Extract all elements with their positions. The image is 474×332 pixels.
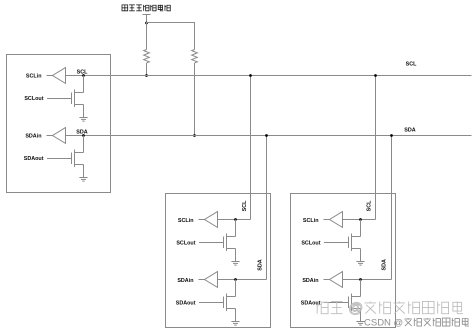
svg-text:SCLout: SCLout [301, 241, 320, 247]
wire: U1 SDAout gate lead [47, 158, 72, 160]
wire: U2 buffer to SDA drop [218, 279, 267, 281]
buffer U3B (SDA input) [330, 272, 343, 288]
svg-text:CSDN @: CSDN @ [364, 318, 403, 329]
resistor R1 (SCL pull-up) [144, 50, 150, 63]
wire: R1 bottom lead [146, 63, 148, 76]
wire: U3 buffer to SDA drop [343, 279, 392, 281]
transistor Q2 (U1 SDA open-drain) [72, 136, 84, 178]
svg-text:SCL: SCL [77, 69, 88, 75]
node: U2 SDA junction [234, 278, 237, 281]
node: R2-SDA junction [193, 134, 196, 137]
label: pull-up supply caption 用于上拉的电源 [122, 5, 170, 11]
svg-text:SCL: SCL [406, 62, 417, 68]
wire: U3 SDAout gate lead [324, 302, 349, 304]
wire: VCC rail [146, 22, 195, 24]
node: R1-SCL junction [145, 74, 148, 77]
wire: U3 buffer to SCL drop [343, 219, 376, 221]
wire: SCL bus [66, 75, 472, 77]
svg-text:SDA: SDA [404, 127, 415, 133]
buffer U1A (SCL input) [53, 68, 66, 84]
wire: SDA drop to U3 [391, 136, 393, 280]
wire: U3 SDAin to buffer [324, 279, 330, 281]
svg-text:SCL: SCL [242, 200, 248, 211]
wire: U2 SDAout gate lead [199, 302, 224, 304]
wire: U2 SCLin to buffer [199, 219, 205, 221]
wire: R2 top lead [194, 23, 196, 50]
node: SDA bus tap for U3 [390, 134, 393, 137]
wire: U2 SCLout gate lead [199, 242, 224, 244]
svg-text:SDA: SDA [76, 129, 87, 135]
wire: SCL drop to U2 [250, 76, 252, 220]
svg-text:SCLout: SCLout [176, 241, 195, 247]
node: SCL bus tap for U3 [374, 74, 377, 77]
wire: R2 bottom lead [194, 63, 196, 136]
svg-text:SDAin: SDAin [302, 278, 318, 284]
wire: U2 buffer to SCL drop [218, 219, 251, 221]
wire: U3 SCLout gate lead [324, 242, 349, 244]
watermark: zhihu 知乎 @不脱发的程序猿 (outline) [316, 300, 463, 316]
buffer U2B (SDA input) [205, 272, 218, 288]
svg-text:SDAin: SDAin [25, 133, 41, 139]
transistor Q3 (U2 SCL open-drain) [224, 220, 236, 262]
svg-text:SCLin: SCLin [178, 218, 194, 224]
svg-text:SDAout: SDAout [176, 301, 196, 307]
wire: R1 top lead [146, 23, 148, 50]
node: SDA bus tap for U2 [265, 134, 268, 137]
svg-text:SDA: SDA [382, 259, 388, 270]
node: U3 SDA junction [359, 278, 362, 281]
node: U3 SCL junction [359, 218, 362, 221]
ground (U3 Q6 source) [356, 322, 364, 326]
node: SCL bus tap for U2 [249, 74, 252, 77]
ground (U1 Q2 source) [79, 178, 87, 182]
wire: U1 SCLout gate lead [47, 98, 72, 100]
wire: SCL drop to U3 [375, 76, 377, 220]
watermark: CSDN @不脱发的程序猿 [364, 318, 469, 329]
wire: U1 SDAin to buffer [47, 135, 53, 137]
svg-text:SDAin: SDAin [177, 278, 193, 284]
ground (U2 Q4 source) [231, 322, 239, 326]
svg-text:SCLin: SCLin [303, 218, 319, 224]
svg-text:SDAout: SDAout [24, 156, 44, 162]
IC U3 outline [291, 194, 396, 328]
node: VCC junction [145, 22, 148, 25]
svg-text:SCL: SCL [367, 200, 373, 211]
wire: U1 SCLin to buffer [47, 75, 53, 77]
buffer U1B (SDA input) [53, 128, 66, 144]
transistor Q6 (U3 SDA open-drain) [349, 280, 361, 322]
svg-text:SDAout: SDAout [301, 301, 321, 307]
wire: SDA bus [66, 135, 472, 137]
transistor Q5 (U3 SCL open-drain) [349, 220, 361, 262]
ground (U1 Q1 source) [79, 118, 87, 122]
node: U1 SDA junction [82, 134, 85, 137]
resistor R2 (SDA pull-up) [192, 50, 198, 63]
buffer U3A (SCL input) [330, 212, 343, 228]
wire: SDA drop to U2 [266, 136, 268, 280]
svg-text:@: @ [349, 300, 363, 316]
wire: U2 SDAin to buffer [199, 279, 205, 281]
svg-text:SCLout: SCLout [24, 96, 43, 102]
power supply VCC symbol [143, 15, 151, 23]
svg-text:SDA: SDA [257, 259, 263, 270]
transistor Q4 (U2 SDA open-drain) [224, 280, 236, 322]
svg-text:SCLin: SCLin [26, 73, 42, 79]
buffer U2A (SCL input) [205, 212, 218, 228]
node: U2 SCL junction [234, 218, 237, 221]
ground (U2 Q3 source) [231, 262, 239, 266]
IC U2 outline [166, 194, 271, 328]
IC U1 outline [7, 55, 111, 193]
wire: U3 SCLin to buffer [324, 219, 330, 221]
ground (U3 Q5 source) [356, 262, 364, 266]
transistor Q1 (U1 SCL open-drain) [72, 76, 84, 118]
node: U1 SCL junction [82, 74, 85, 77]
